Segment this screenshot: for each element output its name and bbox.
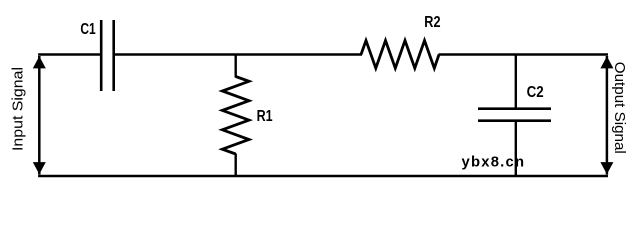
wire top segment: C1 to R2 bbox=[114, 53, 362, 55]
wire R1 bottom lead bbox=[234, 154, 236, 177]
input signal dimension arrow bbox=[33, 56, 46, 175]
svg-text:ybx8.cn: ybx8.cn bbox=[462, 155, 525, 171]
resistor R2 bbox=[361, 14, 441, 68]
wire C2 bottom lead bbox=[515, 121, 517, 176]
svg-text:C2: C2 bbox=[527, 84, 544, 101]
capacitor C1 bbox=[80, 20, 113, 91]
resistor R1 bbox=[222, 77, 272, 155]
watermark ybx8.cn bbox=[462, 155, 525, 171]
svg-text:Input Signal: Input Signal bbox=[10, 67, 27, 151]
wire top segment: input node to C1 bbox=[38, 53, 101, 55]
svg-text:R1: R1 bbox=[257, 108, 273, 125]
wire C2 top lead bbox=[515, 55, 517, 109]
node label Input Signal bbox=[10, 67, 27, 151]
svg-text:Output Signal: Output Signal bbox=[611, 62, 628, 154]
output signal dimension arrow bbox=[600, 56, 613, 175]
svg-text:R2: R2 bbox=[424, 14, 440, 31]
node label Output Signal bbox=[611, 62, 628, 154]
wire R1 top lead bbox=[234, 55, 236, 78]
svg-text:C1: C1 bbox=[80, 21, 95, 38]
wire bottom segment: input node to output node bbox=[38, 175, 608, 177]
capacitor C2 bbox=[478, 84, 551, 121]
wire top segment: R2 to output node bbox=[439, 53, 609, 55]
